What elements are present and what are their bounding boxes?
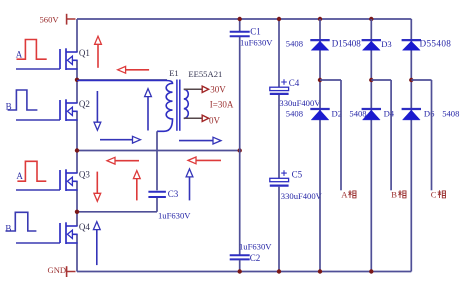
- arrow current up (red, right of Q1): [95, 36, 102, 68]
- wire top rail to C1: [239, 19, 241, 31]
- node dot leg top x=371.3: [369, 17, 373, 21]
- label A-phase (A相): [341, 190, 356, 200]
- svg-text:A: A: [16, 50, 23, 60]
- node dot phase B tap: [369, 78, 373, 82]
- secondary lead 0V: [184, 117, 202, 119]
- arrow current down (red, right of Q3): [94, 172, 101, 202]
- svg-text:1uF630V: 1uF630V: [158, 210, 191, 220]
- node dot Q3-Q4 junction: [75, 210, 79, 214]
- svg-text:B: B: [5, 224, 11, 234]
- wire C5 to bottom rail: [278, 187, 280, 272]
- arrow current down (blue, right of Q2): [94, 91, 101, 130]
- node dot C1-C2 midpoint: [238, 148, 242, 152]
- svg-text:330uF400V: 330uF400V: [279, 98, 321, 108]
- svg-text:Q1: Q1: [79, 48, 90, 58]
- node dot phase A tap: [318, 78, 322, 82]
- GND terminal tick: [66, 266, 68, 277]
- diode D2: [310, 109, 329, 120]
- svg-text:5408: 5408: [442, 109, 459, 119]
- diode D5: [402, 40, 421, 50]
- node dot C5 bottom: [277, 269, 281, 273]
- wire C3 to Q3/Q4 midpoint: [156, 198, 158, 212]
- svg-text:D15408: D15408: [332, 39, 361, 49]
- svg-text:Q4: Q4: [79, 222, 90, 232]
- wire bridge rail segment (Q3 source to Q4 drain): [76, 181, 78, 226]
- transistor Q4: [16, 222, 90, 244]
- wire top 560V bus rail: [77, 18, 411, 20]
- capacitor C2: [230, 255, 250, 259]
- svg-text:A: A: [341, 190, 348, 200]
- signal waveform B (blue pulse) for Q2: [8, 90, 38, 110]
- wire phase A output line: [340, 80, 342, 190]
- svg-text:A: A: [16, 171, 23, 181]
- signal waveform A (red pulse) for Q3: [17, 161, 46, 181]
- wire bridge rail segment (Q1 source to Q2 drain): [76, 60, 78, 103]
- signal waveform A (red pulse) for Q1: [17, 40, 47, 60]
- svg-text:B: B: [391, 190, 397, 200]
- wire phase C tap: [411, 79, 431, 81]
- svg-text:C: C: [431, 190, 437, 200]
- wire phase A tap: [320, 79, 341, 81]
- arrow current up (blue, left of transformer): [145, 89, 152, 131]
- transformer E1 secondary winding: [184, 89, 189, 118]
- wire phase B tap: [371, 79, 391, 81]
- node dot Q1-Q2 junction: [75, 78, 79, 82]
- node dot phase C tap: [409, 78, 413, 82]
- svg-text:Q2: Q2: [79, 99, 90, 109]
- svg-text:1uF630V: 1uF630V: [239, 241, 272, 251]
- capacitor C4 polarized: [270, 79, 289, 94]
- svg-text:5408: 5408: [349, 109, 366, 119]
- transformer E1 primary winding: [77, 81, 173, 132]
- arrow current up (red, left of C3): [133, 171, 140, 201]
- wire rectifier leg x=320: [319, 19, 321, 272]
- capacitor C1: [230, 32, 250, 37]
- svg-text:EE55A21: EE55A21: [188, 69, 222, 79]
- svg-text:1uF630V: 1uF630V: [240, 37, 273, 47]
- arrow 30V output: [202, 86, 208, 92]
- svg-text:D55408: D55408: [420, 39, 452, 49]
- label C-phase (C相): [431, 190, 446, 200]
- wire phase C output line: [431, 80, 433, 190]
- svg-text:Q3: Q3: [79, 169, 90, 179]
- svg-text:330uF400V: 330uF400V: [281, 191, 323, 201]
- svg-text:C1: C1: [250, 27, 261, 37]
- svg-text:C4: C4: [289, 78, 300, 88]
- node dot Q2-Q3 junction: [75, 148, 79, 152]
- transistor Q3: [16, 169, 90, 191]
- svg-text:560V: 560V: [40, 14, 60, 24]
- arrow current left (red, mid-right): [188, 157, 221, 164]
- arrow current up (blue, right of Q4): [93, 222, 100, 266]
- svg-text:C2: C2: [250, 253, 261, 263]
- transformer E1 core: [176, 80, 178, 131]
- capacitor C5 polarized: [270, 170, 289, 185]
- diode D6: [402, 109, 421, 120]
- capacitor C3: [148, 192, 166, 197]
- wire phase B output line: [390, 80, 392, 190]
- signal waveform B (blue pulse) for Q4: [6, 212, 37, 231]
- arrow current up (blue, right of C3): [186, 169, 193, 201]
- node dot C4 top: [277, 17, 281, 21]
- svg-text:30V: 30V: [210, 85, 226, 95]
- wire rectifier leg x=371.3: [370, 19, 372, 272]
- arrow current right (blue, lower-left): [100, 136, 141, 143]
- svg-text:B: B: [6, 101, 12, 111]
- svg-text:5408: 5408: [286, 109, 303, 119]
- wire bridge rail segment (Q4 source to GND): [76, 234, 78, 271]
- label B-phase (B相): [391, 190, 406, 200]
- arrow 0V output: [202, 115, 208, 121]
- diode D4: [362, 109, 381, 120]
- arrow current left (red, mid-left): [107, 157, 139, 164]
- diode D1: [310, 40, 329, 50]
- transistor Q1: [16, 48, 90, 70]
- svg-text:E1: E1: [169, 68, 179, 78]
- node dot C2 bottom: [238, 269, 242, 273]
- wire Q2/Q3 midpoint to C1/C2 midpoint: [77, 150, 240, 152]
- svg-text:C3: C3: [168, 189, 179, 199]
- node dot leg bottom x=371.3: [369, 269, 373, 273]
- transistor Q2: [16, 99, 90, 121]
- svg-text:0V: 0V: [209, 115, 221, 125]
- node dot C1 top: [238, 17, 242, 21]
- svg-text:D4: D4: [384, 108, 395, 118]
- wire bridge rail segment (Q2 source to Q3 drain): [76, 111, 78, 173]
- wire rectifier leg x=411 (right edge): [410, 19, 412, 272]
- arrow current left (red, above transformer): [118, 66, 150, 73]
- svg-text:5408: 5408: [286, 39, 303, 49]
- svg-text:D6: D6: [424, 108, 435, 118]
- diode D3: [362, 40, 381, 50]
- svg-text:D3: D3: [381, 39, 392, 49]
- wire C1 to C2: [239, 37, 241, 255]
- node dot leg bottom x=320: [318, 269, 322, 273]
- wire C2 to bottom rail: [239, 260, 241, 272]
- svg-text:GND: GND: [48, 265, 67, 275]
- svg-text:C5: C5: [292, 170, 303, 180]
- wire top rail to C4: [278, 19, 280, 87]
- secondary lead 30V: [184, 88, 202, 90]
- arrow current right (blue, below transformer): [179, 137, 221, 144]
- wire bottom GND bus rail: [77, 271, 411, 273]
- node Q1/Q2 midpoint to transformer primary top: [77, 79, 167, 81]
- wire primary bottom to C3: [156, 131, 158, 190]
- wire C4 to C5: [278, 95, 280, 178]
- wire bridge rail segment (560V to Q1 drain): [76, 19, 78, 52]
- node dot leg top x=320: [318, 17, 322, 21]
- 560V terminal tick: [66, 14, 68, 25]
- svg-text:I=30A: I=30A: [210, 99, 234, 109]
- wire Q3/Q4 midpoint to C3 bottom: [77, 211, 157, 213]
